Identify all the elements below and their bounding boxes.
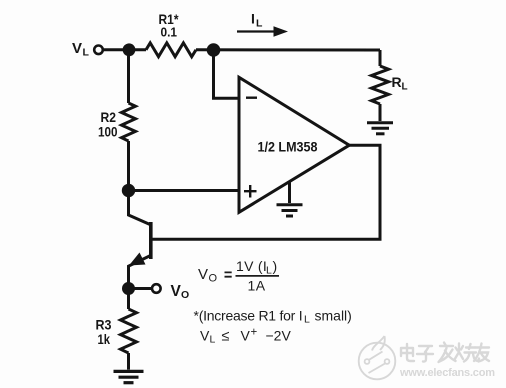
wire RL to ground <box>379 104 382 121</box>
ground R3 <box>114 371 144 382</box>
resistor R3 <box>121 309 137 353</box>
svg-text:V: V <box>198 266 208 283</box>
wire R3 bottom <box>127 353 130 370</box>
transistor Q1 collector lead <box>129 191 151 225</box>
svg-text:small): small) <box>315 308 352 324</box>
wire R3 top <box>127 289 130 310</box>
svg-text:100: 100 <box>98 124 118 140</box>
svg-text:1A: 1A <box>248 278 266 294</box>
equation equals sign <box>225 272 232 276</box>
svg-text:*(Increase R1 for I: *(Increase R1 for I <box>194 308 303 324</box>
svg-text:1/2 LM358: 1/2 LM358 <box>258 139 318 155</box>
svg-text:L: L <box>266 264 272 276</box>
svg-text:L: L <box>256 18 263 30</box>
resistor R2 <box>122 103 136 141</box>
circuit ink <box>94 32 393 383</box>
svg-text:): ) <box>273 258 278 274</box>
svg-text:+: + <box>251 327 258 339</box>
svg-text:−2V: −2V <box>266 328 292 344</box>
transistor Q1 emitter arrow <box>129 253 146 266</box>
svg-text:www.elecfans.com: www.elecfans.com <box>399 367 495 379</box>
terminal VO <box>152 284 161 293</box>
svg-text:V: V <box>241 328 251 344</box>
resistor R1 <box>146 43 196 57</box>
svg-text:V: V <box>72 40 82 57</box>
junction A2 <box>207 43 221 57</box>
ground op-amp <box>277 205 303 216</box>
svg-text:V: V <box>200 328 210 344</box>
transistor Q1 base bar <box>149 222 153 259</box>
wire inverting input <box>214 50 240 98</box>
watermark logo traces <box>365 352 390 374</box>
transistor Q1 emitter lead <box>129 256 151 289</box>
current arrow IL head <box>274 26 289 36</box>
svg-text:I: I <box>251 11 255 27</box>
watermark char 子 <box>417 346 433 362</box>
svg-text:L: L <box>402 81 408 92</box>
svg-text:L: L <box>304 314 310 326</box>
minus input symbol <box>246 96 257 98</box>
watermark char 发 <box>439 343 456 363</box>
watermark logo circle <box>359 336 396 379</box>
wire R2 bottom <box>127 141 130 191</box>
svg-text:L: L <box>210 334 216 346</box>
svg-text:1k: 1k <box>98 331 111 347</box>
svg-text:1V (I: 1V (I <box>236 258 267 274</box>
svg-text:≤: ≤ <box>222 329 230 345</box>
svg-text:R: R <box>392 74 402 90</box>
svg-text:V: V <box>171 283 182 300</box>
svg-text:0.1: 0.1 <box>161 25 178 40</box>
watermark char 友 <box>474 344 489 362</box>
op-amp U1 <box>239 77 349 212</box>
wire down to RL <box>379 50 382 66</box>
equation fraction bar <box>236 275 280 277</box>
wire noninverting input <box>129 189 240 192</box>
current arrow IL line <box>237 30 276 32</box>
watermark char 烧 <box>455 344 480 362</box>
svg-text:O: O <box>181 289 189 301</box>
resistor RL <box>372 66 389 104</box>
wire VO junction to terminal <box>129 287 152 290</box>
ground RL <box>367 123 393 134</box>
junction VO <box>122 282 135 295</box>
junction A1 <box>123 43 136 56</box>
svg-text:O: O <box>209 273 218 285</box>
wire R2 top <box>127 50 130 103</box>
wire VL to R1 <box>103 48 146 51</box>
plus input symbol <box>244 185 257 198</box>
ground op-amp stub <box>288 182 291 203</box>
wire output feedback <box>152 145 380 239</box>
junction B <box>122 184 135 197</box>
terminal VL <box>94 46 103 55</box>
wire R1 to corner <box>196 48 380 51</box>
watermark char 电 <box>401 344 414 361</box>
svg-text:L: L <box>83 47 90 59</box>
